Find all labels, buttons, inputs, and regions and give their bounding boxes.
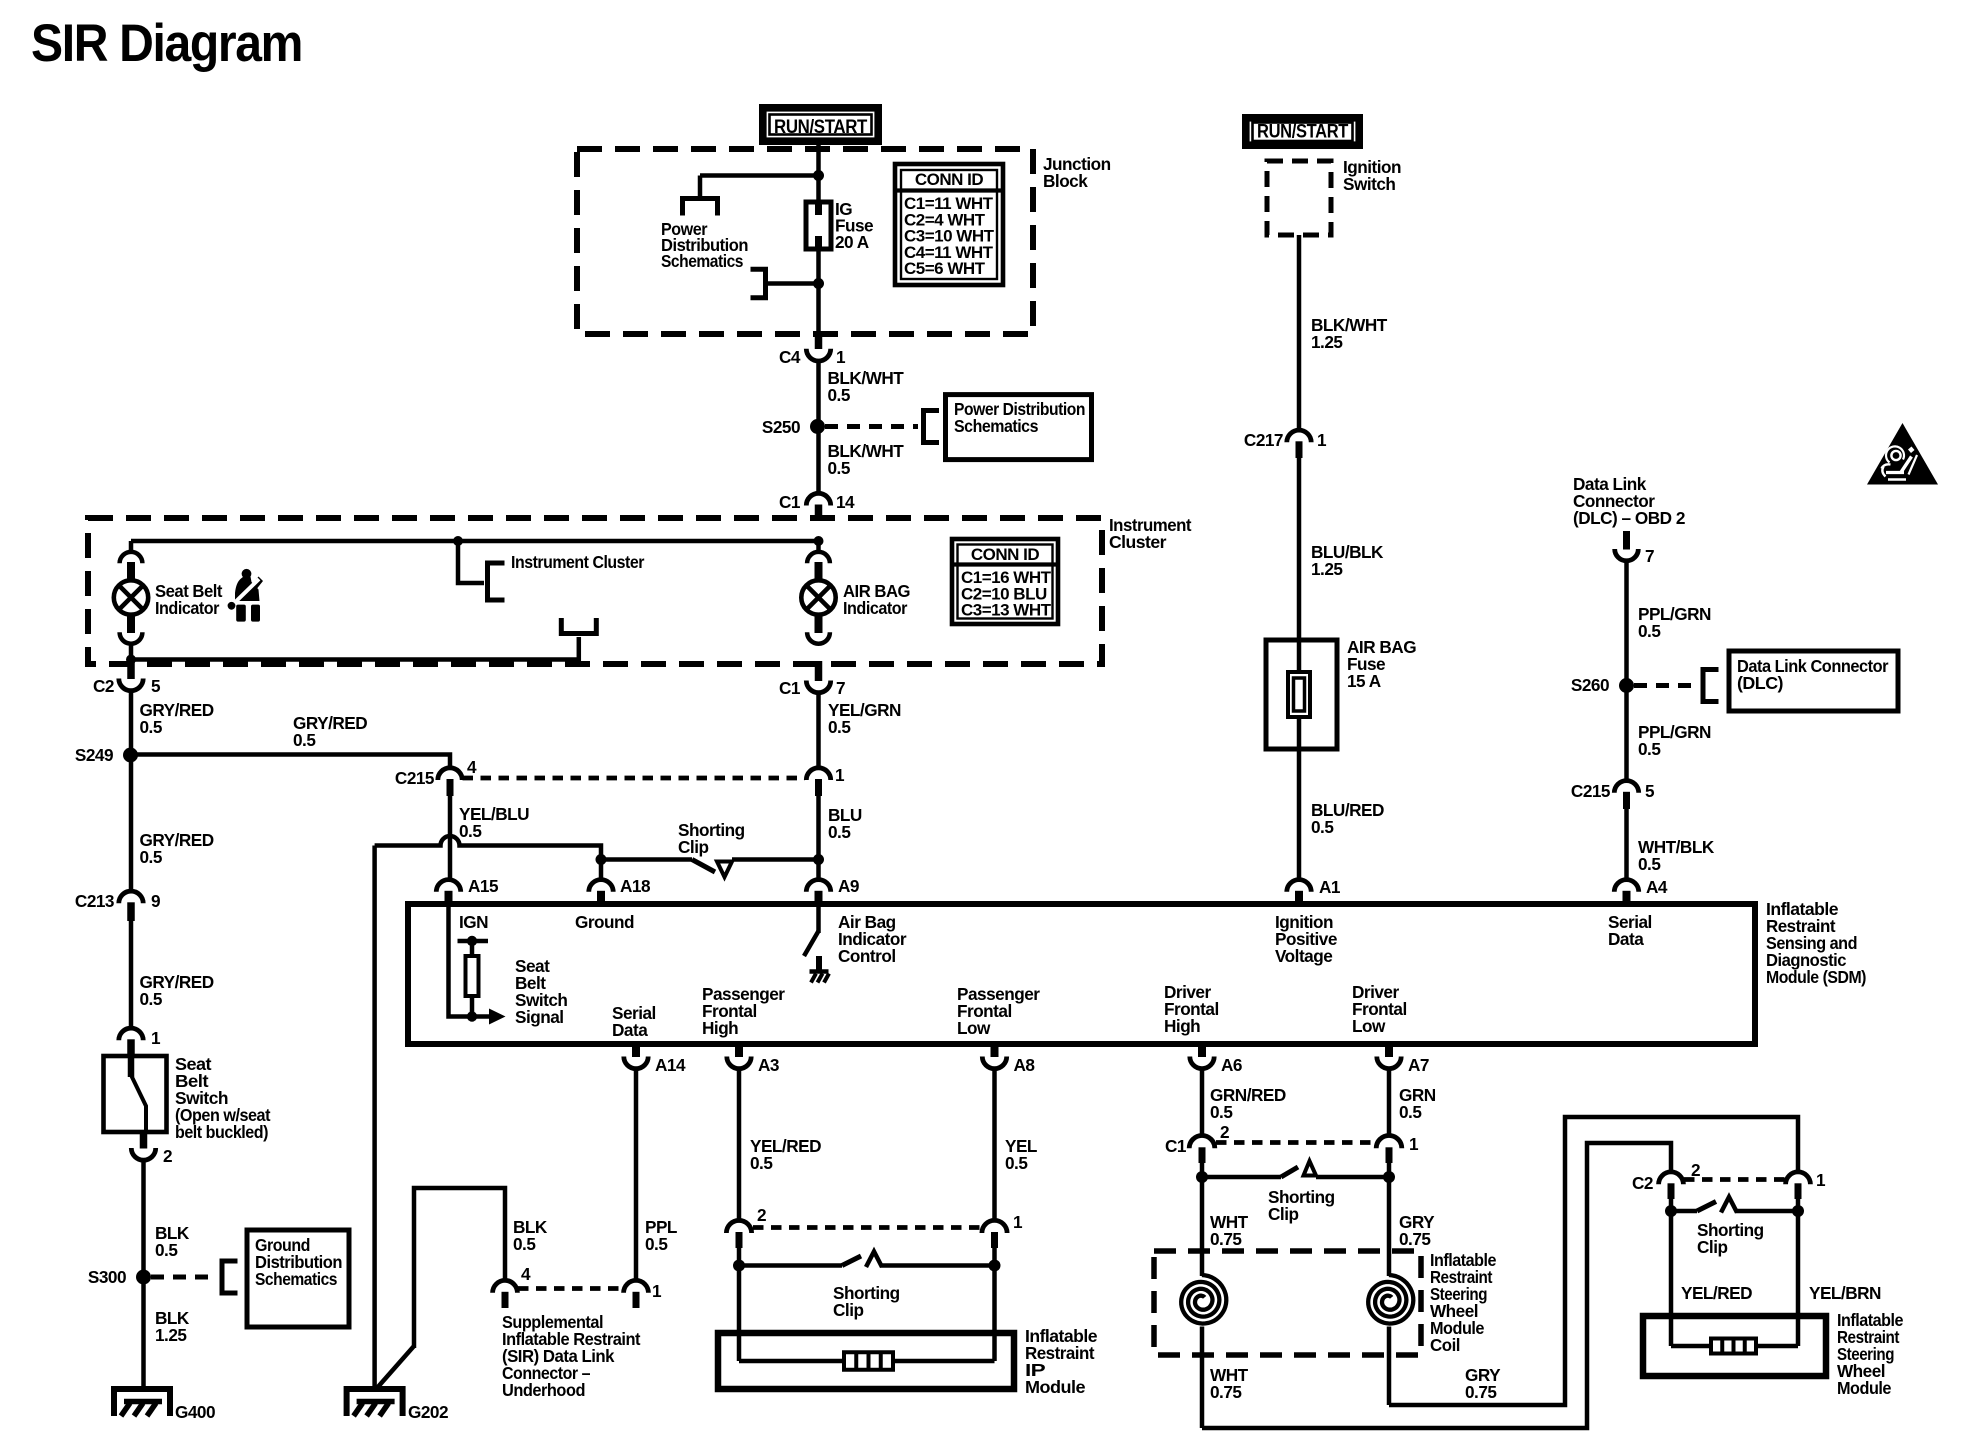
node S249 [123, 748, 138, 763]
connector C215 pin 4 [438, 768, 462, 780]
connector seat belt switch pin 2 [140, 1133, 148, 1149]
CONN ID table (junction block) [895, 164, 1003, 285]
svg-text:A9: A9 [838, 876, 859, 896]
dashed tap S300 to ground distribution fork [151, 1275, 216, 1280]
svg-text:C215: C215 [395, 768, 435, 788]
coil spiral right [1368, 1275, 1413, 1324]
svg-text:IGN: IGN [459, 912, 488, 932]
dashed connector line C215 to IP harness pin 1 [463, 776, 806, 781]
svg-text:IgnitionPositiveVoltage: IgnitionPositiveVoltage [1275, 912, 1337, 966]
wire RUN/START to IG fuse [816, 141, 821, 204]
igniter element steering wheel module [1711, 1339, 1756, 1354]
connector C1 pin 2 (coil) [1189, 1136, 1215, 1149]
shorting clip between A18 and A9 wires [601, 857, 692, 862]
wire C4 to S250 - BLK/WHT 0.5 [816, 360, 821, 420]
connector C4 pin 1 [815, 332, 823, 349]
wire switch to S300 - BLK 0.5 [141, 1158, 146, 1270]
svg-text:Instrument Cluster: Instrument Cluster [511, 552, 645, 572]
svg-text:G202: G202 [408, 1402, 448, 1422]
lamp Seat Belt Indicator [129, 541, 134, 553]
connector A4 [1614, 880, 1638, 892]
wires into IP module [737, 1266, 742, 1362]
wire S249 down to C213 - GRY/RED 0.5 [129, 761, 134, 890]
module dashed box steering wheel coil [1154, 1251, 1421, 1355]
svg-text:RUN/START: RUN/START [774, 116, 867, 138]
connector SIR DLC pin 1 [624, 1280, 649, 1292]
wires into coil box [1200, 1177, 1205, 1276]
off-page fork at S300 [222, 1261, 238, 1293]
icon seat belt person [228, 569, 263, 622]
cluster top internal wire [131, 539, 819, 544]
wires out of coil box [1200, 1327, 1205, 1429]
wire WHT route to steering wheel module C2 pin 2 [1202, 1143, 1671, 1428]
lamp AIR BAG Indicator [816, 541, 821, 553]
coil spiral left [1181, 1275, 1226, 1324]
wire ignition switch to C217 - BLK/WHT 1.25 [1297, 235, 1302, 430]
connector coil pin 1 [1376, 1136, 1402, 1149]
svg-text:A1: A1 [1319, 877, 1341, 897]
wire DLC to S260 - PPL/GRN 0.5 [1624, 560, 1629, 679]
connector A6 [1198, 1042, 1206, 1058]
svg-text:S250: S250 [762, 417, 800, 437]
connector seat belt switch pin 1 [119, 1028, 143, 1040]
svg-text:4: 4 [521, 1264, 531, 1284]
svg-text:1: 1 [151, 1028, 161, 1048]
connector A18 [589, 880, 613, 892]
svg-text:GRY0.75: GRY0.75 [1399, 1212, 1435, 1249]
svg-text:A3: A3 [758, 1055, 779, 1075]
wire A8 down - YEL 0.5 [992, 1068, 997, 1221]
wire C213 to seat belt switch - GRY/RED 0.5 [129, 921, 134, 1028]
cluster bottom internal wire [131, 637, 579, 660]
wire S250 to C1 - BLK/WHT 0.5 [816, 433, 821, 494]
shorting clip passenger inflator [737, 1248, 742, 1266]
wire A3 down - YEL/RED 0.5 [737, 1068, 742, 1221]
connector DLC pin 7 [1623, 531, 1630, 550]
CONN ID table (instrument cluster) [952, 539, 1058, 624]
fork for Instrument Cluster name [488, 563, 505, 600]
arrow seat belt switch signal [489, 1009, 506, 1025]
connector SIR DLC pin 4 [493, 1280, 518, 1292]
module box Inflatable Restraint IP Module [718, 1333, 1014, 1389]
connector A3 [735, 1042, 743, 1058]
connector C215 pin 5 [1614, 781, 1638, 793]
svg-text:S249: S249 [75, 745, 113, 765]
connector A15 [436, 880, 460, 892]
node at airbag lamp feed [814, 536, 824, 546]
svg-text:2: 2 [163, 1146, 172, 1166]
connector IP harness pin 1 (airbag lamp) [806, 768, 830, 780]
box Data Link Connector (DLC) [1729, 651, 1898, 711]
wire C215 to A4 - WHT/BLK 0.5 [1624, 809, 1629, 880]
junction block dashed box [577, 149, 1033, 334]
connector C1 pin 14 [806, 493, 830, 505]
shorting clip steering wheel module [1669, 1199, 1674, 1211]
off-page fork at S250 [924, 411, 940, 443]
connector A7 [1385, 1042, 1393, 1058]
connector passenger module pin 2 [726, 1220, 751, 1233]
svg-text:C1=11 WHTC2=4 WHTC3=10 WHTC4=1: C1=11 WHTC2=4 WHTC3=10 WHTC4=11 WHTC5=6 … [904, 194, 995, 278]
wires into steering wheel module [1669, 1211, 1674, 1346]
node S300 [136, 1270, 151, 1285]
wire C217 to fuse - BLU/BLK 1.25 [1297, 458, 1302, 640]
wire fork to main wire [768, 281, 819, 286]
svg-text:7: 7 [1645, 546, 1654, 566]
SDM internal: air bag indicator control switch [816, 907, 821, 933]
connector C2 pin 5 [127, 661, 135, 679]
connector passenger module pin 1 [982, 1220, 1007, 1233]
SDM internal: seat belt switch signal sense [449, 905, 473, 1017]
wire pin1 to A9 - BLU 0.5 [816, 796, 821, 880]
svg-text:2: 2 [757, 1205, 766, 1225]
node S250 [810, 419, 825, 434]
node on cluster wire (tap) [453, 536, 463, 546]
wire A7 down - GRN 0.5 [1387, 1068, 1392, 1136]
off-page fork at S260 [1703, 670, 1719, 702]
svg-text:Seat BeltIndicator: Seat BeltIndicator [155, 581, 223, 618]
svg-text:Ground: Ground [575, 912, 634, 932]
dashed connector line C1-2 to 1 [1216, 1140, 1375, 1145]
connector A14 [632, 1042, 640, 1058]
svg-text:1: 1 [836, 347, 846, 367]
wire S249 branch to C215 - GRY/RED 0.5 [131, 755, 450, 771]
svg-text:G400: G400 [175, 1402, 215, 1422]
wire S260 to C215 - PPL/GRN 0.5 [1624, 692, 1629, 781]
svg-text:C213: C213 [75, 891, 114, 911]
svg-text:C2: C2 [1632, 1173, 1653, 1193]
dashed connector line C2-2 to 1 [1684, 1177, 1785, 1182]
instrument cluster dashed box [88, 518, 1102, 664]
connector A8 [991, 1042, 999, 1058]
svg-text:A6: A6 [1221, 1055, 1242, 1075]
svg-text:C2: C2 [93, 676, 114, 696]
svg-text:C217: C217 [1244, 430, 1283, 450]
connector C2 pin 2 (steering wheel module) [1659, 1172, 1684, 1184]
logo airbag warning triangle [1867, 423, 1938, 485]
wire A14 to underhood DLC - PPL 0.5 [634, 1068, 639, 1281]
node junction below fuse [813, 278, 824, 289]
off-page fork: power distribution (upper) [683, 199, 718, 216]
wire ground branch to G202 [372, 846, 377, 1393]
module box steering wheel module [1643, 1316, 1826, 1376]
svg-text:5: 5 [151, 676, 161, 696]
svg-text:A14: A14 [655, 1055, 686, 1075]
svg-text:A15: A15 [468, 876, 499, 896]
svg-text:C1=16 WHTC2=10 BLUC3=13 WHT: C1=16 WHTC2=10 BLUC3=13 WHT [961, 568, 1052, 620]
svg-text:C1: C1 [779, 678, 801, 698]
svg-text:1: 1 [835, 765, 845, 785]
dashed tap S250 to power distribution fork [825, 424, 918, 429]
svg-text:1: 1 [1816, 1170, 1826, 1190]
svg-text:BLK1.25: BLK1.25 [155, 1308, 190, 1345]
node at lamp bottom [126, 655, 136, 665]
svg-text:S300: S300 [88, 1267, 126, 1287]
connector C213 pin 9 [119, 891, 143, 903]
svg-text:4: 4 [467, 757, 477, 777]
svg-text:1: 1 [1409, 1134, 1419, 1154]
svg-text:A18: A18 [620, 876, 651, 896]
svg-text:1: 1 [1013, 1212, 1023, 1232]
svg-text:GRY0.75: GRY0.75 [1465, 1365, 1501, 1402]
wire tap to cluster name fork [458, 541, 484, 583]
power label RUN/START (junction block feed) [763, 108, 878, 141]
wire A18 ground branch with hop over A15 wire [375, 836, 601, 880]
svg-text:1: 1 [652, 1281, 662, 1301]
connector C217 pin 1 [1287, 430, 1311, 442]
connector A1 [1287, 880, 1311, 892]
svg-text:7: 7 [836, 678, 845, 698]
svg-text:C4: C4 [779, 347, 801, 367]
box Power Distribution Schematics [946, 395, 1092, 460]
svg-text:IgnitionSwitch: IgnitionSwitch [1343, 157, 1401, 194]
connector A9 [806, 880, 830, 892]
fuse IG Fuse 20 A [806, 202, 831, 249]
node S260 [1619, 678, 1634, 693]
svg-text:CONN ID: CONN ID [915, 170, 984, 189]
ignition switch dashed box [1267, 161, 1331, 235]
ground G400 [114, 1389, 170, 1416]
svg-text:RUN/START: RUN/START [1257, 122, 1349, 143]
wire C1-7 down - YEL/GRN 0.5 [816, 691, 821, 768]
svg-text:A4: A4 [1646, 877, 1668, 897]
wire C2 to S249 - GRY/RED 0.5 [129, 689, 134, 748]
box Ground Distribution Schematics [247, 1230, 349, 1327]
fork at cluster bottom wire [561, 618, 596, 634]
igniter element IP module [844, 1352, 893, 1370]
node junction at fuse feed [813, 170, 824, 181]
svg-text:2: 2 [1220, 1122, 1229, 1142]
fuse AIR BAG Fuse 15 A [1266, 640, 1337, 749]
module box SDM [408, 904, 1755, 1044]
wire branch to power distribution fork (top) [700, 173, 819, 178]
svg-text:2: 2 [1691, 1160, 1700, 1180]
svg-text:YEL/BRN: YEL/BRN [1809, 1283, 1881, 1303]
power label RUN/START (ignition switch) [1246, 118, 1359, 145]
node on A9 wire [813, 854, 824, 865]
connector C1 pin 7 [815, 661, 823, 681]
svg-text:A7: A7 [1408, 1055, 1429, 1075]
switch blade inside seat belt switch [128, 1056, 135, 1077]
dashed connector line 2 to 1 [753, 1225, 981, 1230]
wire S300 to G400 - BLK 1.25 [141, 1283, 146, 1392]
svg-text:YEL/RED: YEL/RED [1681, 1283, 1752, 1303]
off-page fork: power distribution (lower) [751, 269, 766, 297]
svg-text:1: 1 [1317, 430, 1327, 450]
dashed tap S260 to DLC fork [1634, 683, 1697, 688]
wire pin 4 up and over to G202 - BLK 0.5 [414, 1188, 505, 1348]
wire A6 down - GRN/RED 0.5 [1200, 1068, 1205, 1136]
svg-text:AIR BAGIndicator: AIR BAGIndicator [843, 581, 910, 618]
wire fuse to C4 [816, 249, 821, 334]
svg-text:S260: S260 [1571, 675, 1609, 695]
svg-text:9: 9 [151, 891, 160, 911]
wire fuse to A1 - BLU/RED 0.5 [1297, 749, 1302, 880]
svg-text:C215: C215 [1571, 781, 1611, 801]
svg-text:C1: C1 [1165, 1136, 1187, 1156]
svg-text:C1: C1 [779, 492, 801, 512]
switch Seat Belt Switch box [104, 1056, 167, 1132]
SDM internal ground symbol [816, 956, 822, 971]
svg-text:A8: A8 [1014, 1055, 1036, 1075]
wire YEL/BLU C215 to A15 [448, 796, 453, 880]
wire GRY route to steering wheel module pin 1 [1389, 1117, 1798, 1405]
node on A18 wire [596, 854, 607, 865]
ground G202 [347, 1389, 403, 1416]
svg-text:14: 14 [836, 492, 855, 512]
dashed connector line pin4 to pin1 [518, 1286, 623, 1291]
svg-text:SIR Diagram: SIR Diagram [31, 14, 302, 73]
svg-text:5: 5 [1645, 781, 1655, 801]
svg-text:CONN ID: CONN ID [971, 545, 1040, 564]
shorting clip driver coil [1200, 1163, 1205, 1177]
connector steering wheel module pin 1 [1786, 1172, 1811, 1184]
